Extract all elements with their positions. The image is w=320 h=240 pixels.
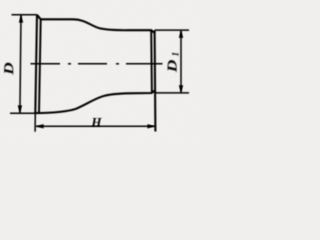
reducer body bottom contour: [35, 90, 155, 113]
dimension line D1: [180, 31, 182, 93]
svg-text:D: D: [165, 59, 180, 73]
arrowhead H left: [36, 124, 44, 128]
extension line D bottom (collinear with bottom contour): [10, 112, 35, 114]
dimension line H: [36, 125, 155, 127]
arrowhead D1 top: [179, 30, 183, 38]
large end face line: [35, 15, 37, 113]
centerline dash 2: [78, 63, 107, 65]
arrowhead D top: [19, 15, 23, 23]
large end bevel line: [39, 19, 41, 113]
extension line D1 bottom (collinear with bottom contour): [155, 92, 189, 94]
small end face line (continues down as H extension): [154, 30, 157, 131]
extension line D1 top (collinear with top contour): [155, 29, 189, 31]
svg-text:D: D: [1, 62, 16, 76]
svg-text:H: H: [90, 115, 102, 130]
centerline dash 3: [126, 63, 163, 65]
arrowhead D bottom: [18, 105, 22, 113]
centerline dot 1: [68, 63, 71, 65]
centerline dot 2: [116, 63, 119, 65]
centerline dash 1: [31, 63, 61, 65]
extension line H left (face line continued down): [34, 113, 36, 132]
arrowhead D1 bottom: [179, 85, 183, 93]
small end bevel line: [150, 30, 153, 93]
svg-text:1: 1: [170, 52, 180, 57]
arrowhead H right: [147, 124, 155, 128]
reducer body top contour: [37, 15, 155, 33]
extension line D top: [12, 14, 38, 16]
dimension line D: [20, 16, 21, 113]
